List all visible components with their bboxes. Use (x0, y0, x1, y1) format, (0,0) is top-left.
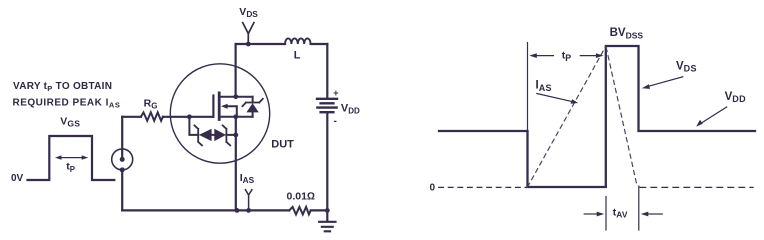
node ground junction (325, 208, 330, 213)
wire drain vertical (235, 44, 237, 97)
dashed zero baseline right (640, 186, 753, 188)
svg-text:-: - (334, 116, 337, 127)
terminal IAS (245, 190, 252, 211)
inductor L (285, 38, 311, 44)
tav arrow left (584, 213, 597, 215)
node VDS tap (246, 42, 251, 47)
pulse generator circle (112, 149, 133, 170)
battery plate long 2 (317, 106, 336, 108)
zener Z1 triangle (199, 129, 212, 141)
svg-text:IAS: IAS (536, 80, 552, 93)
resistor RG (141, 112, 163, 120)
battery VDD plate long 1 (317, 98, 337, 100)
transistor body connection with arrow (227, 106, 237, 117)
wire drain stub (221, 96, 253, 98)
node source (233, 114, 238, 119)
DUT circle (170, 64, 269, 163)
extension line tav left (605, 197, 607, 231)
tp arrow left (536, 55, 554, 57)
transistor DUT gate bar (212, 96, 214, 117)
wire source stub (221, 116, 253, 118)
body diode zener D1 (252, 97, 254, 117)
waveform solid VDS trace (439, 46, 755, 187)
zener Z2 triangle (214, 129, 226, 141)
svg-text:BVDSS: BVDSS (610, 27, 644, 41)
wire gate rail (122, 116, 141, 118)
svg-text:VGS: VGS (60, 116, 80, 129)
svg-text:VDD: VDD (725, 91, 746, 104)
svg-text:0: 0 (430, 182, 436, 193)
wire bottom rail (122, 209, 289, 211)
ground (319, 210, 335, 231)
dashed zero baseline left (439, 186, 527, 188)
extension line tp left (527, 43, 529, 130)
battery plate short 1 (321, 102, 334, 104)
svg-text:0V: 0V (11, 173, 24, 184)
svg-text:tAV: tAV (613, 207, 628, 220)
battery plate short 2 (321, 111, 334, 113)
arrow IAS pointer (537, 94, 572, 102)
svg-text:L: L (294, 50, 301, 62)
svg-text:VDD: VDD (341, 102, 360, 115)
transistor DUT channel bar (218, 93, 221, 120)
tp arrow right (580, 55, 596, 57)
extension line tav right (638, 186, 640, 230)
node gate zener junction (187, 114, 192, 119)
wire pulse generator drop (121, 117, 123, 160)
svg-text:0.01Ω: 0.01Ω (287, 191, 316, 203)
svg-text:REQUIRED PEAK IAS: REQUIRED PEAK IAS (13, 97, 121, 109)
node IAS tap (246, 208, 251, 213)
svg-text:tP: tP (562, 50, 572, 63)
arrow VDD pointer (702, 107, 727, 123)
svg-text:RG: RG (144, 97, 158, 110)
wire right vertical battery top (326, 44, 328, 99)
terminal VDS (243, 23, 254, 44)
node zener to source line (233, 133, 238, 138)
zener Z1 bar (194, 125, 202, 145)
wire bottom rail right (311, 209, 328, 211)
tav arrow right (649, 213, 663, 215)
svg-text:+: + (333, 88, 338, 98)
resistor 0.01ohm (289, 207, 311, 215)
wire right vertical battery bottom (326, 112, 328, 210)
svg-text:DUT: DUT (271, 139, 294, 151)
dashed IAS ramp rising (528, 47, 606, 187)
wire pulse generator to bottom rail (121, 170, 123, 211)
svg-text:tP: tP (66, 161, 75, 174)
node pulse generator center (120, 157, 125, 162)
VGS pulse waveform (28, 136, 115, 180)
wire top rail (236, 43, 285, 45)
gate protection zener pair wire (189, 117, 235, 135)
arrow VDS pointer (649, 77, 683, 87)
wire top rail right of inductor (311, 43, 328, 45)
node pulse generator bottom (120, 167, 125, 172)
svg-text:VDS: VDS (239, 6, 258, 19)
tp measure arrow (59, 157, 84, 159)
svg-text:VARY tP TO OBTAIN: VARY tP TO OBTAIN (13, 81, 112, 93)
svg-text:VDS: VDS (676, 60, 697, 73)
wire source vertical (235, 117, 237, 211)
dashed IAS ramp falling (606, 48, 637, 186)
wire gate rail to MOSFET (163, 116, 214, 118)
node source to bottom rail (235, 208, 240, 213)
svg-text:IAS: IAS (240, 172, 255, 185)
zener Z2 bar (223, 125, 231, 145)
node drain (233, 94, 238, 99)
